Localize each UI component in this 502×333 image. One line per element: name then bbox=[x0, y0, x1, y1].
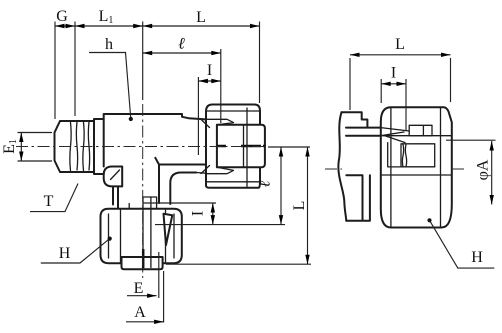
nut hex edges bbox=[391, 107, 441, 227]
cone slants bbox=[201, 119, 210, 173]
dimension I branch bbox=[143, 203, 216, 225]
dimension L right bbox=[307, 147, 309, 264]
svg-text:E1: E1 bbox=[1, 139, 19, 154]
run centerline bbox=[16, 146, 268, 148]
slot dashes bbox=[217, 145, 266, 147]
dimension L right view bbox=[350, 55, 451, 110]
branch slot dash bbox=[142, 249, 145, 268]
branch insert bbox=[122, 257, 163, 269]
male thread end T bbox=[55, 119, 104, 174]
svg-text:L: L bbox=[196, 9, 206, 26]
branch centerline bbox=[142, 104, 144, 278]
svg-text:H: H bbox=[59, 245, 71, 262]
dimension A bbox=[126, 271, 164, 323]
svg-text:I: I bbox=[207, 62, 212, 79]
dimension E1 left bbox=[18, 133, 53, 162]
svg-text:L: L bbox=[395, 36, 405, 53]
dimension I right view bbox=[381, 79, 406, 130]
branch tube stub visible above nut bbox=[129, 197, 156, 209]
right side vertical dims: ext lines bbox=[155, 147, 311, 264]
dimension ell top bbox=[143, 49, 221, 123]
run nut beaks bbox=[196, 119, 233, 173]
svg-text:E: E bbox=[134, 280, 144, 297]
dimension ell right bbox=[280, 147, 282, 225]
leader h bbox=[89, 53, 131, 120]
svg-text:T: T bbox=[44, 193, 54, 210]
dimension G bbox=[55, 25, 260, 27]
branch stub bbox=[113, 186, 118, 208]
branch nut hex edges bbox=[121, 209, 166, 264]
dimension L top bbox=[143, 24, 153, 28]
dimension I top bbox=[198, 77, 220, 155]
svg-text:G: G bbox=[56, 8, 68, 25]
svg-text:h: h bbox=[105, 36, 113, 53]
nut chamfer edge lines bbox=[381, 136, 452, 175]
nut right view bbox=[381, 107, 452, 227]
dimension L1 bbox=[75, 24, 85, 28]
branch nut chamfer edges bbox=[109, 214, 175, 258]
dim extension lines top row bbox=[55, 22, 260, 120]
svg-text:L: L bbox=[291, 201, 308, 211]
run insert bbox=[217, 125, 265, 167]
run nut bbox=[206, 105, 260, 188]
svg-text:ℓ: ℓ bbox=[178, 36, 185, 53]
body break outline bbox=[338, 112, 370, 221]
svg-text:H: H bbox=[471, 249, 483, 266]
svg-text:I: I bbox=[190, 211, 207, 216]
branch collet slot lines bbox=[143, 197, 151, 268]
svg-text:ℓ: ℓ bbox=[257, 180, 274, 187]
branch axis centerline right view bbox=[325, 168, 342, 170]
run tube lines into nut bbox=[346, 128, 381, 136]
dimension phiA bbox=[446, 140, 496, 204]
svg-text:A: A bbox=[134, 304, 146, 321]
body bbox=[104, 114, 206, 204]
svg-text:φA: φA bbox=[475, 159, 492, 180]
leader H left bbox=[41, 239, 110, 263]
interior: tube, insert tip, thread bbox=[381, 125, 435, 167]
branch nut beak sliver bbox=[164, 214, 173, 245]
leader H right bbox=[430, 220, 495, 268]
dimension E bbox=[127, 252, 159, 298]
svg-text:L1: L1 bbox=[99, 8, 114, 26]
leader T bbox=[30, 184, 78, 212]
svg-text:I: I bbox=[391, 65, 396, 82]
collet finger lines bbox=[244, 108, 248, 187]
branch nut H bbox=[101, 209, 182, 264]
